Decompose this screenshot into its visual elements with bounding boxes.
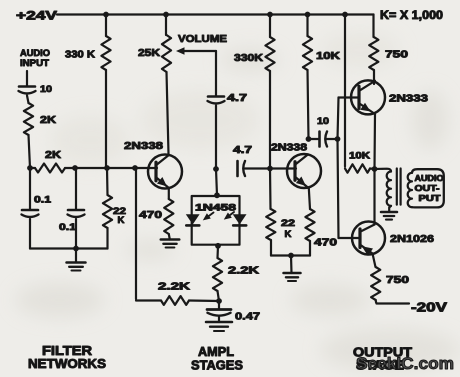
svg-text:4.7: 4.7 — [233, 145, 253, 156]
svg-text:+24V: +24V — [16, 9, 57, 23]
svg-text:PUT: PUT — [419, 194, 441, 203]
svg-text:750: 750 — [386, 274, 409, 286]
svg-text:0.47: 0.47 — [235, 311, 260, 323]
svg-text:470: 470 — [314, 237, 337, 249]
svg-text:2K: 2K — [45, 150, 62, 161]
svg-text:2N338: 2N338 — [124, 140, 163, 152]
svg-text:750: 750 — [385, 49, 408, 61]
svg-text:FILTER: FILTER — [42, 344, 92, 358]
svg-text:2.2K: 2.2K — [228, 266, 260, 277]
svg-text:2N338: 2N338 — [271, 143, 308, 154]
svg-text:10K: 10K — [349, 151, 370, 162]
svg-text:INPUT: INPUT — [20, 58, 49, 69]
svg-text:25K: 25K — [138, 47, 160, 59]
svg-text:K: K — [285, 229, 292, 240]
svg-text:VOLUME: VOLUME — [178, 33, 227, 45]
svg-text:330K: 330K — [234, 52, 263, 64]
svg-text:10K: 10K — [316, 50, 341, 62]
svg-text:2N1026: 2N1026 — [390, 233, 434, 245]
svg-text:4.7: 4.7 — [227, 93, 248, 104]
svg-text:1N458: 1N458 — [195, 203, 236, 214]
svg-text:AMPL: AMPL — [198, 345, 234, 359]
svg-text:10: 10 — [40, 84, 52, 95]
svg-text:2.2K: 2.2K — [158, 282, 191, 293]
svg-text:K= X 1,000: K= X 1,000 — [380, 10, 443, 22]
svg-text:NETWORKS: NETWORKS — [28, 357, 106, 371]
svg-text:K: K — [118, 215, 125, 226]
svg-text:STAGES: STAGES — [191, 359, 243, 373]
svg-text:22: 22 — [281, 218, 295, 229]
svg-text:OUT-: OUT- — [415, 184, 440, 193]
svg-text:0.1: 0.1 — [59, 222, 77, 233]
svg-text:10: 10 — [317, 116, 329, 127]
svg-text:SeekIC.com: SeekIC.com — [356, 354, 454, 373]
svg-text:2K: 2K — [40, 115, 57, 126]
svg-text:-20V: -20V — [411, 301, 448, 315]
svg-text:2N333: 2N333 — [389, 93, 428, 105]
svg-text:0.1: 0.1 — [34, 195, 52, 206]
svg-text:330 K: 330 K — [65, 49, 95, 61]
svg-text:AUDIO: AUDIO — [415, 174, 445, 183]
svg-text:470: 470 — [139, 209, 162, 221]
